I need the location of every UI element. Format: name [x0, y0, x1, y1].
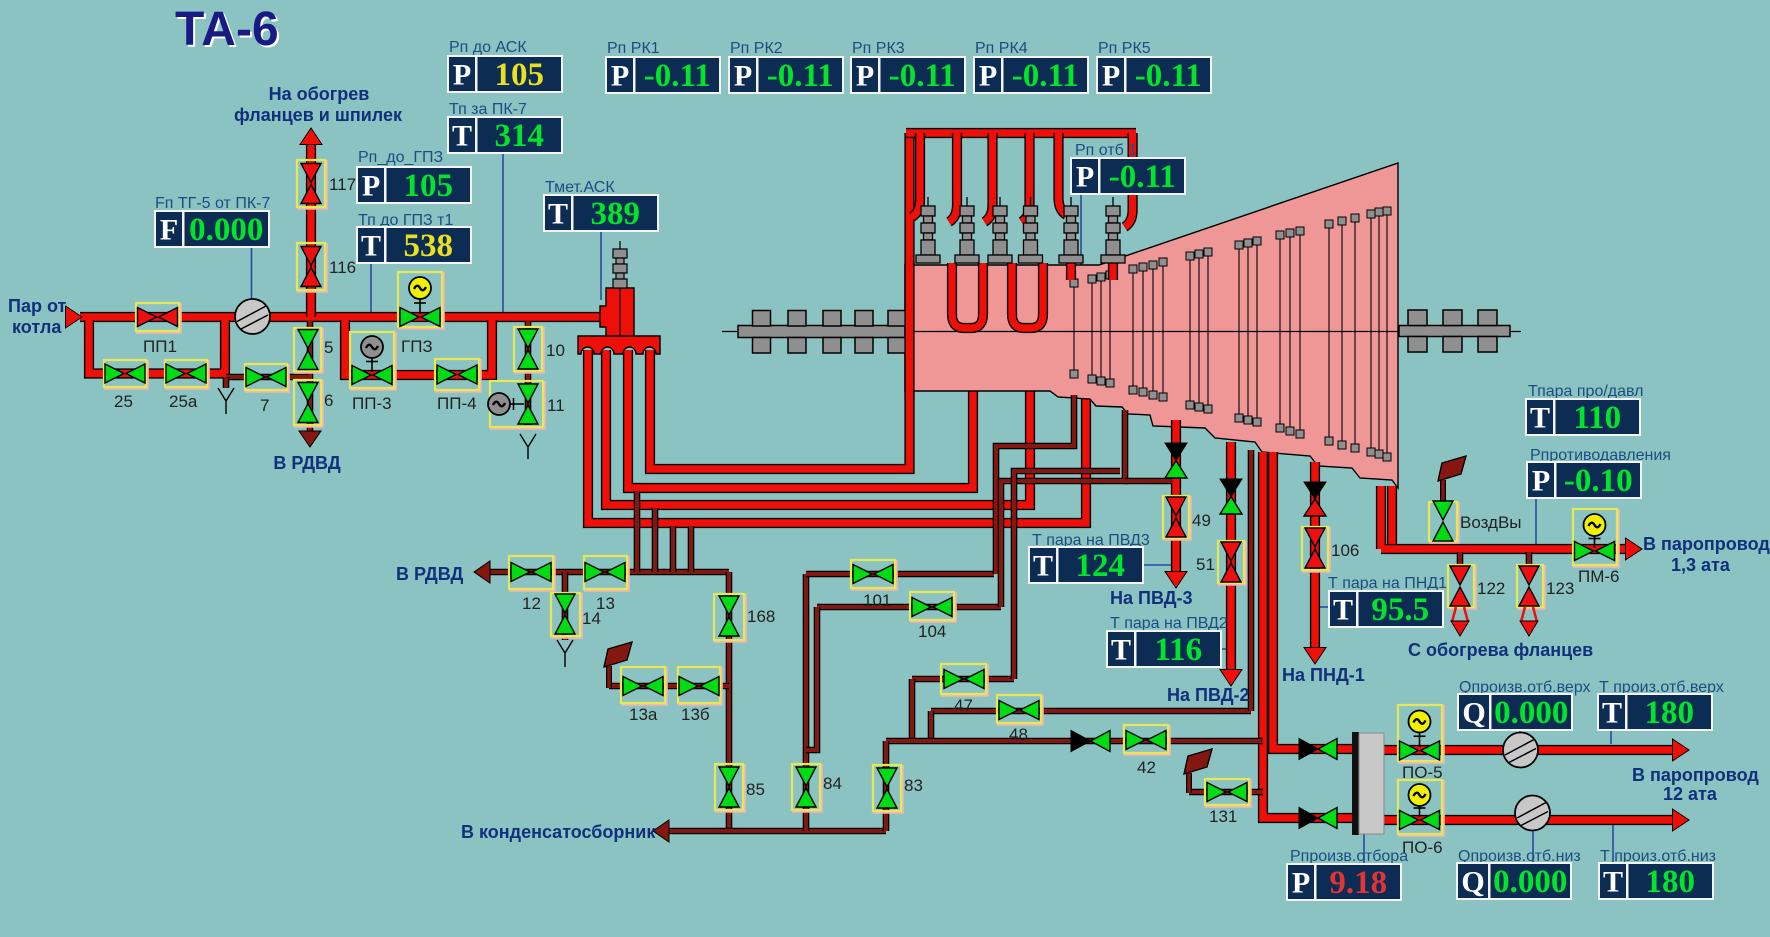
sensor box P -0.11 RK1 [605, 56, 721, 94]
pipe: crossover U4 [588, 350, 1086, 523]
valve PP1 [136, 303, 181, 333]
sensor box P -0.11 RK4 [973, 56, 1089, 94]
pipe: crossover U3 [606, 350, 1030, 505]
svg-text:25а: 25а [169, 392, 198, 411]
valve 104 [910, 592, 956, 622]
svg-text:0.000: 0.000 [189, 212, 263, 248]
sensor box P -0.11 RK3 [850, 56, 966, 94]
svg-text:Рп РК2: Рп РК2 [730, 40, 783, 57]
valve 122 [1448, 565, 1476, 609]
svg-text:105: 105 [495, 57, 545, 93]
svg-text:122: 122 [1477, 579, 1505, 598]
svg-text:0.000: 0.000 [1494, 695, 1568, 731]
pipe: steam admission header [906, 128, 1136, 138]
flow orifice on main line [235, 299, 270, 334]
svg-text:-0.10: -0.10 [1564, 463, 1633, 499]
drain: 101 riser from casing [996, 395, 1074, 574]
svg-text:101: 101 [863, 591, 891, 610]
valve 116 [297, 243, 327, 292]
svg-text:-0.11: -0.11 [644, 58, 711, 94]
valve 49 [1163, 496, 1191, 540]
check valve PO-5 feed [1299, 739, 1318, 760]
pipe: PO-5 outlet line [1384, 745, 1672, 755]
svg-text:T: T [1603, 866, 1623, 899]
svg-text:12: 12 [522, 594, 541, 613]
sensor box T 116 [1106, 630, 1222, 668]
valve 84 [792, 764, 822, 812]
svg-text:47: 47 [954, 696, 973, 715]
svg-text:-0.11: -0.11 [1109, 159, 1176, 195]
drain: stubs 122/123 [1460, 552, 1529, 565]
svg-text:С обогрева фланцев: С обогрева фланцев [1408, 640, 1593, 660]
pipe: bypass loop valves 25/25a [89, 320, 225, 374]
valve PP-3 with actuator [350, 332, 396, 390]
drain: valve 131 line [1189, 789, 1263, 796]
drain: valve 7 line [226, 374, 308, 381]
drain: valve 104 line [817, 604, 1001, 611]
pipe: PO-6 outlet line [1384, 815, 1672, 825]
valve 117 [297, 160, 327, 209]
valve GPZ with actuator [398, 272, 444, 329]
svg-text:14: 14 [582, 609, 601, 628]
valve 83 [873, 765, 903, 813]
drain fork under valve 14 [557, 640, 573, 667]
drain: valve 14 branch [562, 572, 569, 640]
drain: valve 47 line [912, 676, 1014, 683]
svg-text:10: 10 [546, 341, 565, 360]
svg-text:Рпроизв.отбора: Рпроизв.отбора [1290, 848, 1408, 865]
valve 48 [997, 695, 1043, 725]
svg-text:Q: Q [1462, 697, 1485, 730]
svg-text:180: 180 [1646, 864, 1696, 900]
pipe: header drop 3 [985, 133, 993, 222]
svg-text:85: 85 [746, 780, 765, 799]
drain fork under valve 11 [520, 434, 536, 459]
svg-text:9.18: 9.18 [1329, 865, 1387, 901]
sensor box T 180 verh [1597, 693, 1713, 731]
check valve PND-1 drop [1304, 482, 1326, 499]
sensor line Tmet ASK [600, 230, 602, 300]
svg-text:-0.11: -0.11 [1135, 58, 1202, 94]
valve 11 with actuator [488, 381, 545, 429]
svg-text:48: 48 [1009, 725, 1028, 744]
valve 5 [294, 328, 323, 373]
pipe: production extraction lower [1263, 452, 1352, 818]
arrow: to steam line 12 ata upper [1673, 739, 1690, 761]
svg-text:Рп РК4: Рп РК4 [975, 40, 1028, 57]
svg-text:11: 11 [547, 396, 565, 415]
turbine casing [905, 163, 1398, 488]
svg-text:25: 25 [114, 392, 133, 411]
svg-text:Рп РК3: Рп РК3 [852, 40, 905, 57]
svg-text:168: 168 [747, 607, 775, 626]
sensor line P protivodavl [1535, 497, 1537, 545]
svg-text:P: P [1292, 867, 1310, 900]
svg-text:116: 116 [1154, 632, 1202, 668]
svg-text:389: 389 [591, 196, 641, 232]
svg-text:ПП-3: ПП-3 [352, 394, 392, 413]
pipe: admission loop A [952, 263, 983, 328]
check valve PO-6 feed [1299, 808, 1318, 829]
svg-text:116: 116 [329, 258, 356, 277]
pipe: header drop 6 [1125, 133, 1133, 227]
check valve PVD-2 drop [1220, 479, 1242, 497]
control valve spindle 4 [1019, 197, 1043, 263]
svg-text:F: F [160, 214, 178, 247]
control valve spindle 3 [988, 197, 1012, 263]
check valve before 42 [1071, 731, 1091, 752]
svg-text:180: 180 [1645, 695, 1695, 731]
sensor line P otb1 [1080, 193, 1082, 295]
control valve spindle 6 [1101, 197, 1125, 263]
drain: 47 riser [1014, 471, 1120, 679]
arrow: to RDVD [474, 561, 490, 583]
svg-text:T: T [361, 230, 381, 263]
sensor box P -0.11 RK2 [728, 56, 844, 94]
svg-text:P: P [1102, 60, 1120, 93]
svg-text:На ПВД-3: На ПВД-3 [1110, 588, 1193, 608]
svg-text:Рп РК5: Рп РК5 [1098, 40, 1151, 57]
sensor box F 0.000 [154, 210, 270, 248]
svg-text:T: T [1111, 634, 1131, 667]
svg-text:P: P [362, 170, 380, 203]
flag vent near 131 [1186, 773, 1192, 793]
valve 168 [714, 594, 746, 642]
pipe: header drop 2 [949, 133, 957, 222]
svg-text:ПП1: ПП1 [143, 337, 177, 356]
arrow: to condensate collector [653, 820, 669, 842]
pipe: header drop 4 [1022, 133, 1030, 222]
sensor line T verh [1610, 729, 1612, 744]
flow orifice lower production line [1515, 796, 1550, 831]
svg-text:ПО-6: ПО-6 [1402, 838, 1443, 857]
sensor box T 180 niz [1598, 862, 1714, 900]
sensor box P -0.10 [1526, 461, 1642, 499]
svg-text:Т пара на ПНД1: Т пара на ПНД1 [1328, 575, 1447, 592]
svg-text:T: T [548, 198, 568, 231]
svg-text:Рп РК1: Рп РК1 [607, 40, 660, 57]
valve 6 [294, 380, 323, 427]
sensor line F flow [251, 246, 253, 299]
valve 12 [509, 556, 555, 591]
svg-text:-0.11: -0.11 [1012, 58, 1079, 94]
sensor box P 105 ASK [447, 55, 563, 93]
arrow: to PVD-2 [1220, 670, 1242, 687]
svg-text:-0.11: -0.11 [767, 58, 834, 94]
pipe: bypass loop valves PP-3/PP-4 [345, 320, 492, 375]
control valve spindle 1 [916, 197, 940, 263]
sensor box P 9.18 [1286, 863, 1402, 901]
drain: RDVD header with valves 12/13 [478, 569, 729, 576]
svg-text:83: 83 [904, 776, 923, 795]
pipe: admission loop B [1012, 263, 1043, 328]
sensor line T PND1 [1315, 606, 1330, 608]
drain: stub valves 10/11 [525, 321, 532, 425]
svg-text:106: 106 [1331, 541, 1359, 560]
valve PP-4 [435, 359, 481, 392]
svg-text:51: 51 [1196, 555, 1215, 574]
sensor box T 389 [543, 194, 659, 232]
drain: check/42 line [886, 738, 1263, 745]
svg-text:Тп за ПК-7: Тп за ПК-7 [449, 101, 527, 118]
pipe: admission stub spindle5 [1066, 263, 1076, 280]
pipe: header drop 1 [912, 133, 920, 217]
drain: 104 left elbow [806, 607, 817, 750]
svg-text:В конденсатосборник: В конденсатосборник [461, 822, 656, 842]
svg-text:ПП-4: ПП-4 [437, 394, 477, 413]
sensor line P proizv otbora [1363, 834, 1365, 865]
pipe: casing left edge feed (overlay) [904, 263, 914, 400]
svg-text:котла: котла [12, 317, 62, 337]
svg-text:T: T [1033, 550, 1053, 583]
svg-text:P: P [611, 60, 629, 93]
pipe: exhaust to PM-6 line [1387, 486, 1397, 549]
valve 106 [1302, 527, 1330, 572]
turbine blade rows [1074, 215, 1387, 453]
steam chest manifold [578, 336, 660, 354]
svg-text:123: 123 [1546, 579, 1574, 598]
sensor box T 110 [1525, 398, 1641, 436]
svg-text:В паропровод: В паропровод [1632, 765, 1759, 785]
drain: 13a/13b line [609, 683, 729, 690]
svg-text:P: P [856, 60, 874, 93]
svg-text:13б: 13б [681, 705, 710, 724]
svg-text:-0.11: -0.11 [889, 58, 956, 94]
sensor box T 314 [447, 116, 563, 154]
drain: 48 left drop [928, 711, 935, 741]
drain: 7 left elbow [223, 377, 230, 388]
drain: condensate header [659, 828, 886, 835]
valve 25 [104, 360, 148, 389]
valve PO-5 with actuator [1398, 705, 1444, 763]
valve 51 [1218, 541, 1246, 585]
valve 85 [715, 764, 745, 812]
drain: header to PVD3 drop [1125, 478, 1172, 485]
svg-text:T: T [1530, 402, 1550, 435]
svg-text:117: 117 [329, 175, 356, 194]
svg-text:ГПЗ: ГПЗ [401, 337, 433, 356]
valve 47 [941, 664, 988, 696]
arrow: to steam line 12 ata lower [1673, 809, 1690, 831]
svg-text:P: P [979, 60, 997, 93]
svg-text:фланцев и шпилек: фланцев и шпилек [234, 105, 403, 125]
valve 131 [1205, 779, 1251, 807]
pipe: riser to flange heating (valves 116/117) [306, 140, 316, 317]
svg-text:Тмет.АСК: Тмет.АСК [545, 179, 615, 196]
svg-text:T: T [452, 120, 472, 153]
svg-text:Т пара на ПВД2: Т пара на ПВД2 [1110, 615, 1228, 632]
valve PM-6 with actuator [1573, 509, 1619, 567]
sensor box T 124 [1028, 546, 1144, 584]
svg-text:ПО-5: ПО-5 [1402, 763, 1443, 782]
drain: 47 left drop [909, 679, 916, 741]
svg-text:110: 110 [1573, 400, 1621, 436]
drain: valve 101 line [806, 571, 994, 578]
svg-text:5: 5 [324, 338, 333, 357]
svg-text:T: T [1602, 697, 1622, 730]
drain taps from crossovers [637, 491, 691, 572]
valve VozdVy [1429, 501, 1459, 543]
svg-text:На ПВД-2: На ПВД-2 [1167, 685, 1250, 705]
flag vent near 13a [606, 666, 612, 688]
svg-text:ТА-6: ТА-6 [175, 3, 279, 56]
svg-text:В РДВД: В РДВД [273, 453, 340, 473]
drain: valve 83 column [883, 741, 890, 831]
drain: valve 84 column [803, 574, 810, 831]
svg-text:12 ата: 12 ата [1663, 784, 1718, 804]
svg-text:T: T [1333, 594, 1353, 627]
valve 42 [1124, 725, 1170, 755]
sensor line Q verh [1519, 729, 1521, 735]
pipe: header drop 5 [1059, 133, 1067, 215]
svg-text:На обогрев: На обогрев [269, 84, 370, 104]
sensor line T PVD3 [1142, 564, 1173, 566]
arrow: to PVD-3 [1165, 572, 1187, 589]
pipe: crossover U2 [628, 350, 973, 488]
svg-text:13а: 13а [629, 705, 658, 724]
svg-text:0.000: 0.000 [1493, 864, 1567, 900]
svg-text:Fп ТГ-5 от ПК-7: Fп ТГ-5 от ПК-7 [155, 195, 270, 212]
flow orifice upper production line [1503, 733, 1538, 768]
svg-text:На ПНД-1: На ПНД-1 [1282, 665, 1365, 685]
valve 25a [165, 360, 209, 389]
svg-text:Рп отб 1: Рп отб 1 [1075, 142, 1137, 159]
drain: 1251 riser from casing [1248, 450, 1255, 711]
svg-text:124: 124 [1076, 548, 1126, 584]
pipe: main steam line from boiler [80, 312, 600, 322]
valve 10 [514, 327, 544, 373]
sensor line T za PK-7 [502, 152, 504, 313]
svg-text:538: 538 [404, 228, 454, 264]
svg-text:95.5: 95.5 [1371, 592, 1429, 628]
arrow: to RDVD down [299, 431, 321, 447]
svg-text:6: 6 [324, 391, 333, 410]
shaft coupling left [738, 311, 906, 354]
svg-text:P: P [1076, 161, 1094, 194]
funnel drain under 123 [1521, 607, 1537, 622]
svg-text:104: 104 [918, 622, 946, 641]
svg-text:P: P [734, 60, 752, 93]
stop valve ASK body [600, 288, 634, 338]
arrow: to PND-1 [1304, 648, 1326, 665]
arrow: to steam line 1.3 ata [1626, 538, 1643, 560]
pipe: extraction to PVD-2 (valve 51) [1226, 442, 1236, 672]
sensor box P -0.11 RK5 [1096, 56, 1212, 94]
svg-text:В РДВД: В РДВД [396, 564, 463, 584]
svg-text:В паропровод: В паропровод [1643, 534, 1770, 554]
svg-text:84: 84 [823, 774, 842, 793]
pipe: extraction to PVD-3 (valve 49) [1171, 420, 1181, 574]
pipe: extraction to PND-1 (valve 106) [1310, 462, 1320, 650]
drain: valve 48 line [931, 708, 1251, 715]
sensor line T PVD2 [1220, 648, 1228, 650]
arrow: steam from boiler inlet [66, 306, 83, 328]
drain: stub valves 5/6 to RDVD [307, 321, 314, 432]
pipe: admission stub spindle6 [1108, 263, 1118, 280]
svg-text:7: 7 [260, 396, 269, 415]
svg-text:49: 49 [1192, 511, 1211, 530]
sensor box T 95.5 [1328, 590, 1444, 628]
valve 13 [584, 556, 629, 591]
sensor line to P do GPZ [370, 262, 372, 313]
sensor box Q 0.000 niz [1456, 862, 1572, 900]
pipe: crossover U1 (chest leg1 to casing) [650, 133, 910, 469]
valve PO-6 with actuator [1398, 780, 1444, 836]
valve 123 [1517, 565, 1545, 609]
check valve PVD-3 drop [1165, 443, 1187, 461]
control valve spindle 2 [955, 197, 979, 263]
sensor box P 105 GPZ [356, 166, 472, 204]
control valve spindle 5 [1059, 197, 1083, 263]
arrow: to flange heating [300, 128, 322, 145]
svg-text:ВоздВы: ВоздВы [1460, 513, 1522, 532]
sensor box T 538 [356, 226, 472, 264]
drain: flag stub vozdvy [1440, 480, 1446, 504]
svg-text:ПМ-6: ПМ-6 [1578, 567, 1620, 586]
drain fork under 7 line [218, 388, 234, 414]
stop valve spindle [613, 241, 627, 335]
shaft coupling right [1399, 310, 1510, 352]
valve 13b [678, 667, 722, 705]
sensor line T niz [1612, 821, 1614, 864]
svg-text:Рп_до_ГПЗ: Рп_до_ГПЗ [358, 149, 443, 166]
funnel drain under 122 [1452, 607, 1468, 622]
valve 14 [551, 593, 582, 638]
svg-text:314: 314 [495, 118, 545, 154]
sensor line Q niz [1532, 830, 1534, 864]
sensor box P -0.11 otb1 [1070, 157, 1186, 195]
valve 13a [621, 667, 667, 705]
svg-text:42: 42 [1137, 758, 1156, 777]
pipe: production extraction upper [1273, 452, 1352, 749]
svg-text:Рп до АСК: Рп до АСК [449, 39, 527, 56]
heat exchanger PO [1352, 732, 1359, 835]
svg-text:Пар от: Пар от [8, 296, 66, 316]
svg-text:P: P [453, 59, 471, 92]
valve 101 [851, 560, 897, 590]
drain: 104 riser from casing [1001, 410, 1125, 607]
svg-text:Тпара про/давл: Тпара про/давл [1528, 383, 1643, 400]
svg-text:1,3 ата: 1,3 ата [1671, 555, 1731, 575]
valve 7 [245, 364, 289, 392]
svg-text:Q: Q [1461, 866, 1484, 899]
svg-text:131: 131 [1209, 807, 1237, 826]
drain: column valves 168/85 [726, 572, 733, 831]
sensor box Q 0.000 verh [1457, 693, 1573, 731]
svg-text:105: 105 [404, 168, 454, 204]
svg-text:P: P [1532, 465, 1550, 498]
turbine shaft centerline [722, 331, 1521, 333]
